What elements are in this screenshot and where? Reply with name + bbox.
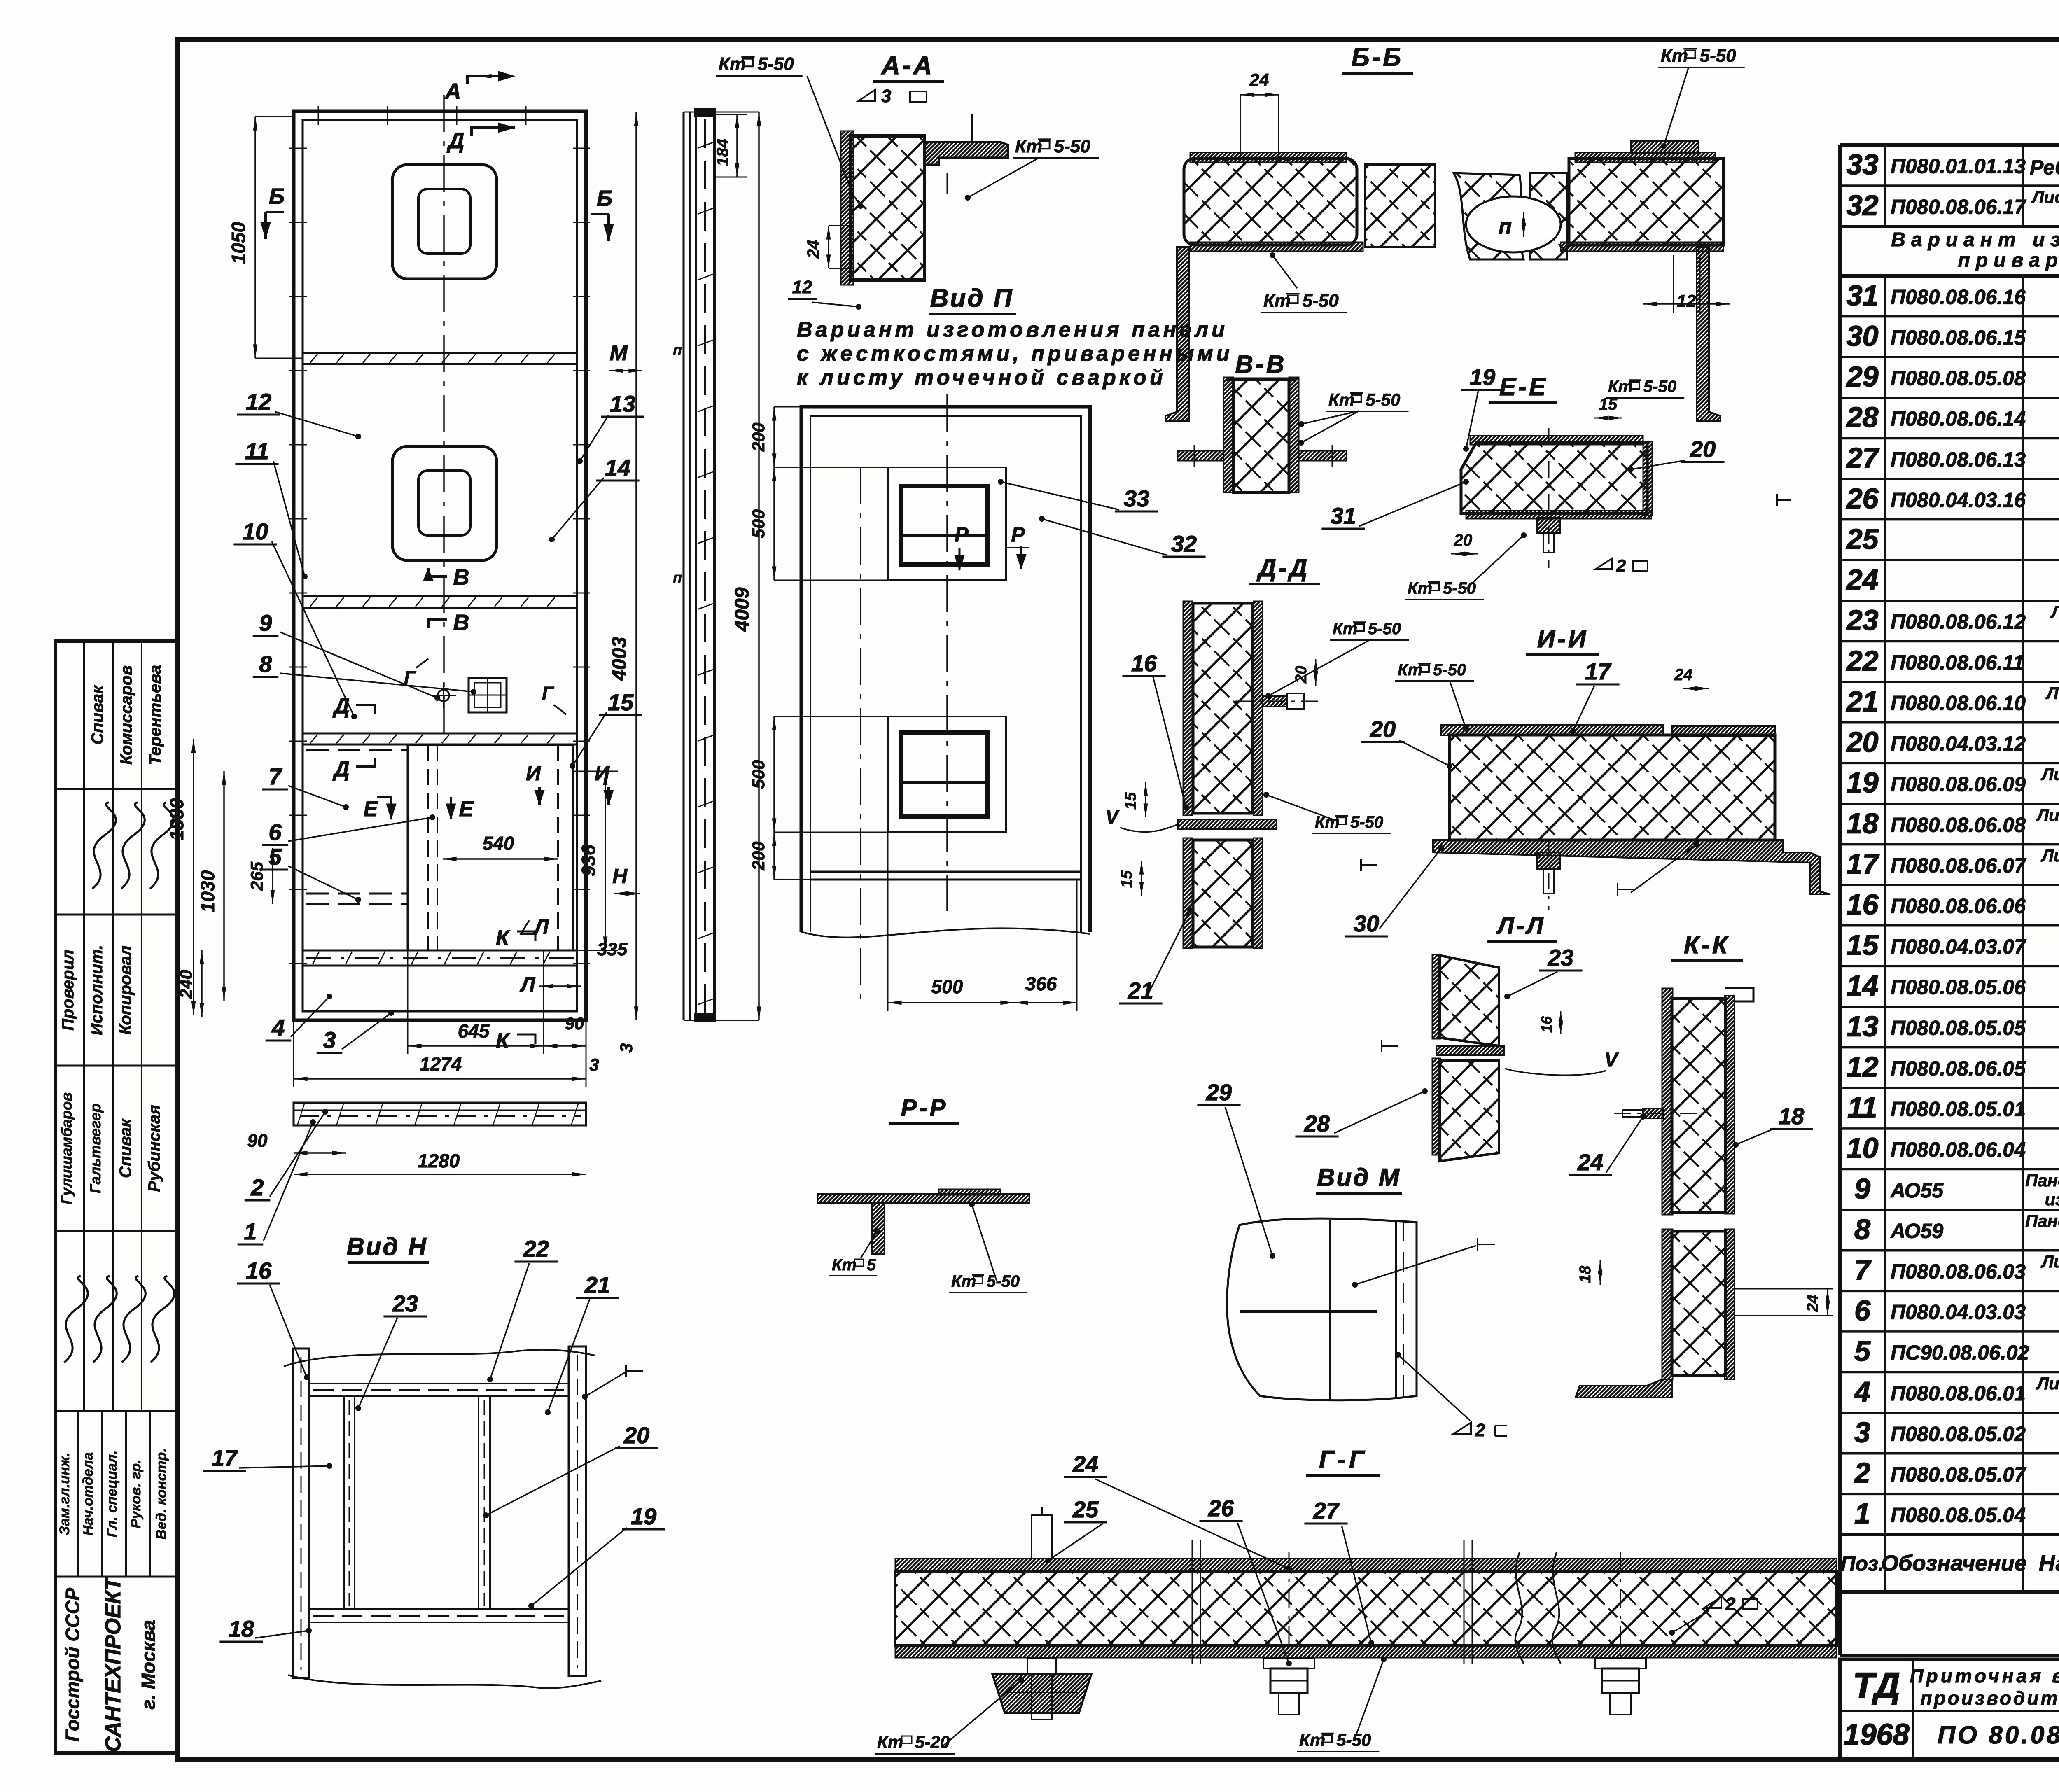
svg-text:П080.08.06.01: П080.08.06.01 — [1891, 1382, 2026, 1405]
svg-text:4: 4 — [271, 1015, 285, 1041]
svg-text:27: 27 — [1313, 1498, 1340, 1524]
svg-text:Вид М: Вид М — [1317, 1164, 1401, 1191]
svg-text:П080.08.05.08: П080.08.05.08 — [1891, 367, 2026, 390]
svg-text:16: 16 — [1131, 650, 1157, 676]
svg-text:5-50: 5-50 — [1643, 378, 1676, 396]
svg-text:Лист В0,8×1232×2465: Лист В0,8×1232×2465 — [2031, 187, 2059, 207]
svg-text:П080.08.06.06: П080.08.06.06 — [1891, 895, 2026, 918]
svg-text:9: 9 — [259, 610, 272, 636]
svg-text:30: 30 — [1354, 910, 1379, 936]
svg-text:П080.08.06.09: П080.08.06.09 — [1891, 773, 2026, 796]
svg-text:3: 3 — [323, 1027, 336, 1053]
svg-text:Проверил: Проверил — [59, 950, 77, 1031]
svg-text:5-50: 5-50 — [1366, 390, 1400, 409]
svg-text:П080.08.06.17: П080.08.06.17 — [1891, 196, 2026, 219]
svg-text:П080.08.06.13: П080.08.06.13 — [1891, 448, 2026, 471]
svg-text:П080.08.05.02: П080.08.05.02 — [1891, 1422, 2026, 1445]
svg-text:И: И — [526, 762, 541, 785]
svg-text:10: 10 — [243, 518, 268, 544]
svg-text:18: 18 — [1577, 1265, 1594, 1283]
svg-text:2: 2 — [1854, 1457, 1870, 1489]
svg-text:П080.08.06.10: П080.08.06.10 — [1891, 691, 2026, 714]
svg-text:Л: Л — [533, 915, 549, 938]
svg-text:28: 28 — [1846, 401, 1879, 433]
svg-text:13: 13 — [610, 391, 635, 417]
svg-text:А-А: А-А — [881, 51, 934, 80]
svg-text:Лист В0,8×258×1232: Лист В0,8×258×1232 — [2036, 805, 2059, 824]
svg-text:П080.08.06.15: П080.08.06.15 — [1891, 326, 2026, 349]
svg-text:П080.08.06.05: П080.08.06.05 — [1891, 1057, 2026, 1080]
svg-text:п: п — [1499, 215, 1512, 239]
svg-text:4: 4 — [1854, 1376, 1870, 1408]
svg-text:18: 18 — [1847, 807, 1879, 839]
svg-text:16: 16 — [1847, 889, 1879, 921]
svg-text:Вед. констр.: Вед. констр. — [154, 1448, 169, 1540]
svg-text:П080.04.03.07: П080.04.03.07 — [1891, 935, 2026, 958]
svg-text:31: 31 — [1847, 279, 1879, 311]
svg-text:265: 265 — [247, 861, 266, 891]
svg-text:Гл. специал.: Гл. специал. — [104, 1451, 120, 1538]
svg-text:1280: 1280 — [418, 1150, 460, 1171]
svg-text:21: 21 — [584, 1272, 610, 1298]
svg-text:Гулишамбаров: Гулишамбаров — [58, 1092, 75, 1204]
svg-text:15: 15 — [1599, 395, 1618, 413]
svg-text:2: 2 — [1616, 556, 1626, 575]
svg-text:Госстрой СССР: Госстрой СССР — [62, 1588, 83, 1742]
svg-text:1968: 1968 — [1843, 1718, 1909, 1751]
svg-text:5: 5 — [268, 844, 282, 870]
svg-text:г. Москва: г. Москва — [138, 1620, 159, 1710]
svg-text:Д: Д — [447, 128, 465, 153]
svg-text:8: 8 — [259, 651, 272, 677]
svg-text:Д: Д — [332, 694, 350, 718]
svg-text:20: 20 — [623, 1422, 649, 1448]
svg-text:26: 26 — [1208, 1495, 1234, 1521]
svg-text:11: 11 — [1847, 1092, 1877, 1124]
svg-text:24: 24 — [1249, 70, 1269, 89]
svg-text:24: 24 — [1072, 1451, 1098, 1477]
svg-text:П080.08.05.04: П080.08.05.04 — [1891, 1504, 2026, 1527]
svg-text:П080.04.03.03: П080.04.03.03 — [1891, 1301, 2026, 1324]
svg-text:К: К — [496, 926, 510, 950]
svg-text:Е: Е — [364, 797, 378, 821]
svg-text:25: 25 — [1846, 523, 1879, 555]
svg-text:1880: 1880 — [166, 798, 187, 840]
svg-text:Спивак: Спивак — [89, 685, 107, 745]
svg-text:Г: Г — [404, 667, 416, 688]
svg-text:П080.08.06.11: П080.08.06.11 — [1891, 651, 2024, 674]
svg-text:Лист В0.8×548×926: Лист В0.8×548×926 — [2040, 765, 2059, 784]
svg-text:14: 14 — [605, 455, 630, 481]
svg-text:П080.04.03.16: П080.04.03.16 — [1891, 488, 2026, 511]
svg-text:5-50: 5-50 — [1054, 136, 1091, 156]
svg-text:Наименование: Наименование — [2039, 1551, 2059, 1576]
svg-text:приваренными точечной сваркой.: приваренными точечной сваркой. — [1958, 250, 2059, 271]
svg-text:9: 9 — [1854, 1173, 1870, 1205]
svg-text:936: 936 — [578, 845, 599, 876]
svg-text:23: 23 — [392, 1290, 418, 1316]
svg-text:производительностью от 100 до: производительностью от 100 до 150тыс. м³… — [1920, 1687, 2059, 1709]
svg-text:САНТЕХПРОЕКТ: САНТЕХПРОЕКТ — [101, 1576, 125, 1752]
svg-text:13: 13 — [1847, 1010, 1879, 1042]
svg-text:Руков. гр.: Руков. гр. — [128, 1459, 144, 1528]
svg-text:11: 11 — [245, 438, 269, 464]
svg-text:П080.08.05.05: П080.08.05.05 — [1891, 1016, 2026, 1039]
svg-text:12: 12 — [792, 277, 812, 297]
svg-text:И: И — [595, 762, 610, 785]
svg-text:366: 366 — [1025, 973, 1057, 994]
svg-text:5-50: 5-50 — [1303, 291, 1339, 311]
svg-text:П080.04.03.12: П080.04.03.12 — [1891, 732, 2026, 755]
svg-text:Лист В0.8×133×926: Лист В0.8×133×926 — [2040, 846, 2059, 865]
svg-text:Спивак: Спивак — [117, 1118, 135, 1178]
svg-text:измерит. прибора: измерит. прибора — [2045, 1190, 2059, 1209]
svg-text:п: п — [673, 341, 682, 358]
svg-text:1030: 1030 — [197, 870, 218, 912]
svg-text:645: 645 — [458, 1020, 490, 1042]
svg-text:П080.08.06.16: П080.08.06.16 — [1891, 285, 2026, 308]
svg-text:Д: Д — [332, 757, 350, 781]
svg-text:П080.08.05.07: П080.08.05.07 — [1891, 1463, 2026, 1486]
svg-text:27: 27 — [1846, 442, 1880, 474]
svg-text:ТД: ТД — [1853, 1666, 1900, 1706]
svg-text:200: 200 — [749, 422, 768, 452]
svg-text:1: 1 — [1854, 1498, 1870, 1530]
svg-text:14: 14 — [1847, 970, 1879, 1002]
svg-text:И-И: И-И — [1537, 625, 1588, 653]
svg-text:17: 17 — [212, 1445, 238, 1471]
svg-text:Д-Д: Д-Д — [1256, 554, 1310, 582]
svg-text:12: 12 — [246, 389, 271, 415]
svg-text:Г-Г: Г-Г — [1319, 1446, 1368, 1473]
svg-text:П080.08.06.08: П080.08.06.08 — [1891, 813, 2026, 836]
svg-text:31: 31 — [1331, 503, 1356, 529]
svg-text:П080.08.05.06: П080.08.05.06 — [1891, 976, 2026, 999]
svg-text:П080.01.01.13: П080.01.01.13 — [1891, 155, 2026, 178]
svg-text:3: 3 — [1854, 1416, 1870, 1448]
svg-text:Панель для установки: Панель для установки — [2025, 1171, 2059, 1190]
svg-text:М: М — [609, 341, 628, 365]
svg-text:18: 18 — [229, 1616, 254, 1642]
svg-text:Кт: Кт — [877, 1732, 903, 1752]
svg-text:17: 17 — [1585, 658, 1612, 684]
svg-text:Р: Р — [955, 523, 969, 546]
svg-text:12: 12 — [1847, 1051, 1879, 1083]
svg-text:25: 25 — [1072, 1496, 1099, 1522]
svg-text:4003: 4003 — [609, 637, 630, 681]
svg-text:Лист В0,8×206×1232: Лист В0,8×206×1232 — [2036, 1374, 2059, 1393]
svg-text:24: 24 — [804, 240, 822, 259]
svg-text:20: 20 — [1370, 716, 1396, 742]
svg-text:Л: Л — [520, 973, 536, 996]
svg-text:П080.08.06.04: П080.08.06.04 — [1891, 1138, 2026, 1161]
svg-text:Исполнит.: Исполнит. — [88, 945, 106, 1036]
svg-text:1: 1 — [244, 1218, 257, 1244]
svg-text:15: 15 — [608, 689, 634, 715]
svg-text:Р: Р — [1011, 523, 1025, 546]
svg-text:2: 2 — [1475, 1420, 1485, 1440]
svg-text:16: 16 — [246, 1258, 272, 1283]
svg-text:Лист В2.0×20×465: Лист В2.0×20×465 — [2045, 683, 2059, 702]
svg-text:Р-Р: Р-Р — [901, 1094, 948, 1121]
svg-text:29: 29 — [1206, 1079, 1232, 1105]
svg-text:Кт: Кт — [832, 1256, 857, 1274]
svg-text:32: 32 — [1171, 531, 1197, 557]
svg-text:5-50: 5-50 — [1350, 813, 1383, 831]
svg-text:Рубинская: Рубинская — [145, 1105, 163, 1192]
svg-text:Вид Н: Вид Н — [346, 1233, 427, 1260]
svg-text:с жесткостями, приваренными: с жесткостями, приваренными — [797, 342, 1233, 366]
svg-text:28: 28 — [1304, 1111, 1330, 1136]
svg-text:Б: Б — [269, 184, 285, 209]
svg-text:Н: Н — [612, 865, 628, 888]
svg-text:Б: Б — [597, 186, 612, 211]
svg-text:Вид П: Вид П — [930, 284, 1014, 313]
svg-text:10: 10 — [1847, 1132, 1879, 1164]
svg-text:Лист В2.0×20×92: Лист В2.0×20×92 — [2050, 602, 2059, 621]
svg-text:19: 19 — [1847, 767, 1879, 799]
svg-text:1274: 1274 — [420, 1053, 462, 1075]
svg-text:16: 16 — [1538, 1016, 1555, 1033]
svg-text:5-50: 5-50 — [1368, 620, 1401, 638]
svg-text:Г: Г — [542, 683, 554, 704]
svg-text:33: 33 — [1847, 149, 1879, 181]
svg-text:V: V — [1105, 806, 1120, 828]
svg-text:Ребро жесткости: Ребро жесткости — [2030, 156, 2059, 179]
svg-text:17: 17 — [1847, 848, 1880, 880]
svg-text:п: п — [673, 569, 682, 586]
svg-text:184: 184 — [714, 139, 732, 166]
svg-text:Поз.: Поз. — [1841, 1552, 1884, 1575]
svg-text:5-50: 5-50 — [1433, 661, 1466, 679]
svg-text:15: 15 — [1122, 792, 1139, 810]
svg-text:15: 15 — [1118, 870, 1135, 888]
svg-text:20: 20 — [1293, 666, 1310, 684]
svg-text:К-К: К-К — [1684, 931, 1730, 959]
svg-text:6: 6 — [1854, 1295, 1871, 1327]
svg-text:В-В: В-В — [1235, 350, 1287, 378]
svg-text:Е: Е — [459, 797, 474, 821]
svg-text:30: 30 — [1847, 320, 1879, 352]
svg-text:2: 2 — [250, 1174, 264, 1200]
svg-text:ПО 80.08:06: ПО 80.08:06 — [1938, 1721, 2059, 1749]
svg-text:3: 3 — [616, 1043, 636, 1052]
svg-text:5: 5 — [1854, 1335, 1871, 1367]
svg-text:2: 2 — [1725, 1594, 1736, 1614]
svg-text:АО55: АО55 — [1890, 1179, 1944, 1202]
svg-text:В: В — [453, 565, 469, 590]
svg-text:335: 335 — [597, 939, 628, 959]
svg-text:20: 20 — [1690, 436, 1716, 462]
svg-text:3: 3 — [881, 86, 891, 106]
svg-text:20: 20 — [1846, 726, 1879, 758]
svg-text:540: 540 — [483, 833, 514, 854]
svg-text:500: 500 — [749, 509, 768, 538]
svg-text:24: 24 — [1846, 564, 1879, 596]
svg-text:Лист В0.8×510×926: Лист В0.8×510×926 — [2040, 1252, 2059, 1271]
svg-text:1050: 1050 — [228, 222, 249, 264]
svg-text:19: 19 — [1470, 364, 1495, 390]
svg-text:П080.08.05.01: П080.08.05.01 — [1891, 1098, 2026, 1121]
svg-text:24: 24 — [1577, 1149, 1603, 1175]
svg-text:П080.08.06.03: П080.08.06.03 — [1891, 1260, 2026, 1283]
svg-text:6: 6 — [268, 819, 282, 845]
svg-text:5: 5 — [867, 1256, 876, 1274]
svg-text:В: В — [453, 610, 469, 635]
svg-text:5-50: 5-50 — [987, 1272, 1020, 1290]
svg-text:К: К — [496, 1029, 510, 1053]
svg-text:к листу точечной сваркой: к листу точечной сваркой — [797, 366, 1166, 390]
svg-text:12: 12 — [1677, 291, 1696, 310]
svg-text:Вариант изготовления листа с ж: Вариант изготовления листа с жесткостями… — [1891, 229, 2059, 251]
svg-text:Обозначение: Обозначение — [1881, 1551, 2027, 1576]
svg-text:Приточная вентиляционная камер: Приточная вентиляционная камера типа ПК.… — [1910, 1665, 2059, 1687]
svg-text:Б-Б: Б-Б — [1352, 43, 1403, 72]
svg-text:Комиссаров: Комиссаров — [117, 665, 135, 765]
svg-text:Е-Е: Е-Е — [1499, 373, 1548, 401]
svg-text:П080.08.06.12: П080.08.06.12 — [1891, 610, 2026, 633]
svg-text:21: 21 — [1846, 685, 1879, 717]
svg-text:200: 200 — [749, 841, 768, 870]
svg-text:8: 8 — [1854, 1213, 1870, 1245]
svg-text:5-50: 5-50 — [1700, 46, 1737, 66]
svg-text:7: 7 — [268, 763, 282, 789]
svg-text:АО59: АО59 — [1890, 1219, 1943, 1242]
svg-text:Зам.гл.инж.: Зам.гл.инж. — [57, 1453, 72, 1535]
svg-text:23: 23 — [1846, 604, 1879, 636]
svg-text:26: 26 — [1846, 482, 1879, 514]
svg-text:П080.08.06.07: П080.08.06.07 — [1891, 854, 2026, 877]
svg-text:Панель для установки: Панель для установки — [2025, 1211, 2059, 1230]
svg-text:32: 32 — [1847, 189, 1879, 222]
svg-text:5-50: 5-50 — [1443, 579, 1476, 597]
svg-text:5-50: 5-50 — [1336, 1730, 1371, 1750]
svg-text:ПС90.08.06.02: ПС90.08.06.02 — [1891, 1341, 2029, 1364]
svg-text:15: 15 — [1847, 929, 1879, 961]
svg-text:22: 22 — [523, 1236, 549, 1262]
svg-text:П080.08.06.14: П080.08.06.14 — [1891, 407, 2026, 430]
svg-text:Терентьева: Терентьева — [146, 665, 164, 765]
svg-text:Вариант изготовления панели: Вариант изготовления панели — [797, 318, 1228, 342]
svg-text:33: 33 — [1124, 485, 1149, 511]
svg-text:7: 7 — [1854, 1254, 1872, 1286]
svg-text:Нач.отдела: Нач.отдела — [80, 1452, 96, 1535]
svg-text:18: 18 — [1779, 1103, 1805, 1129]
svg-text:5-50: 5-50 — [758, 54, 794, 74]
svg-text:Копировал: Копировал — [117, 945, 135, 1035]
svg-text:А: А — [444, 79, 461, 104]
svg-text:19: 19 — [631, 1503, 656, 1529]
svg-text:24: 24 — [1674, 666, 1693, 684]
svg-text:500: 500 — [749, 760, 768, 789]
svg-text:4009: 4009 — [731, 587, 753, 632]
svg-text:Л-Л: Л-Л — [1496, 912, 1545, 939]
svg-text:90: 90 — [565, 1014, 584, 1033]
svg-text:22: 22 — [1846, 645, 1879, 677]
svg-text:5-20: 5-20 — [915, 1732, 950, 1752]
svg-text:29: 29 — [1846, 361, 1879, 393]
svg-text:Гальтвегер: Гальтвегер — [87, 1104, 104, 1193]
svg-text:20: 20 — [1454, 531, 1473, 549]
svg-text:90: 90 — [247, 1131, 268, 1151]
svg-text:24: 24 — [1804, 1295, 1821, 1312]
svg-text:240: 240 — [176, 970, 196, 999]
svg-text:V: V — [1604, 1049, 1619, 1071]
svg-text:23: 23 — [1548, 945, 1573, 971]
svg-text:3: 3 — [589, 1055, 599, 1074]
svg-text:500: 500 — [931, 976, 963, 997]
